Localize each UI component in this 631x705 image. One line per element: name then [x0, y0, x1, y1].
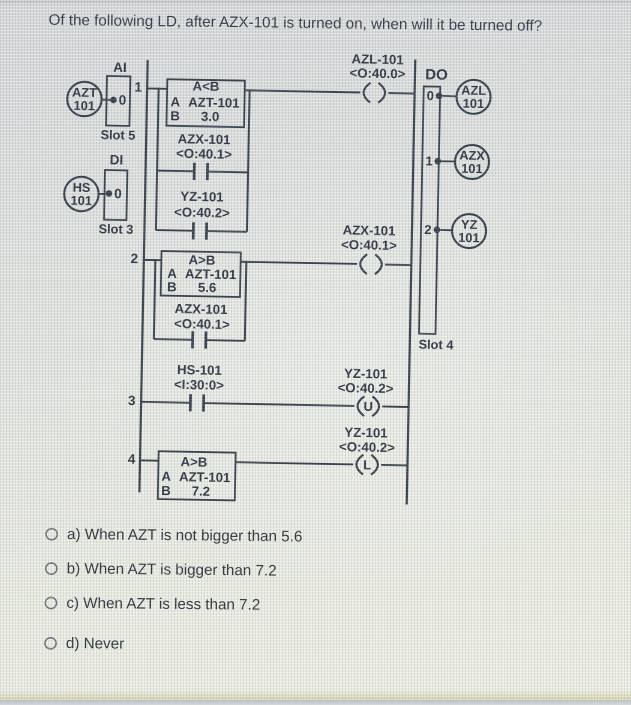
- question title: [48, 12, 542, 35]
- output lamp YZ-101: [452, 214, 487, 249]
- compare block A>B (rung 4): [158, 451, 236, 500]
- svg-text:2: 2: [130, 251, 138, 266]
- svg-text:AI: AI: [113, 60, 127, 75]
- svg-text:A>B: A>B: [180, 454, 207, 470]
- radio option c: [45, 597, 56, 608]
- channel 0 dot (slot 3): [106, 190, 113, 197]
- rung 3 wire to coil: [204, 403, 355, 406]
- svg-text:a) When AZT is not bigger than: a) When AZT is not bigger than 5.6: [67, 526, 302, 545]
- svg-text:HS-101: HS-101: [177, 362, 222, 378]
- svg-text:b) When AZT is bigger than 7.2: b) When AZT is bigger than 7.2: [67, 560, 277, 579]
- contact YZ-101 (rung 1): [156, 229, 193, 232]
- answer options: [45, 526, 303, 655]
- AI module slot 5: [106, 76, 130, 126]
- svg-text:<O:40.1>: <O:40.1>: [174, 316, 230, 332]
- rung 3 wire right: [382, 405, 408, 408]
- right power rail: [407, 60, 416, 505]
- unlatch coil YZ-101 (U): [357, 396, 364, 416]
- svg-text:5.6: 5.6: [198, 280, 217, 295]
- rung 2 wire right: [385, 264, 411, 267]
- svg-text:101: 101: [70, 193, 92, 208]
- rung 2 wire to coil: [241, 262, 357, 264]
- left power rail: [139, 60, 147, 492]
- rung 4 wire to coil: [235, 462, 353, 464]
- rung 1 wire right: [388, 92, 414, 95]
- svg-text:101: 101: [458, 230, 480, 245]
- svg-text:Slot 3: Slot 3: [98, 221, 133, 237]
- svg-text:0: 0: [119, 92, 127, 107]
- instrument AZT-101: [67, 81, 102, 116]
- branch vertical left (rung 1): [156, 88, 159, 230]
- output lamp AZL-101: [456, 80, 491, 115]
- svg-text:<O:40.1>: <O:40.1>: [341, 237, 397, 253]
- ladder diagram (photo slightly rotated): [58, 46, 491, 506]
- channel 0 dot (slot 5): [110, 97, 117, 104]
- compare block A>B (rung 2): [161, 251, 241, 297]
- svg-text:c) When AZT is less than 7.2: c) When AZT is less than 7.2: [66, 595, 260, 614]
- svg-text:<I:30:0>: <I:30:0>: [174, 377, 224, 393]
- latch coil YZ-101 (L): [356, 455, 363, 475]
- svg-text:3.0: 3.0: [201, 109, 220, 124]
- svg-text:101: 101: [73, 98, 95, 113]
- svg-text:4: 4: [128, 452, 136, 467]
- svg-text:3: 3: [128, 393, 136, 408]
- radio option a: [46, 529, 57, 540]
- instrument HS-101: [64, 176, 99, 211]
- svg-text:1: 1: [425, 153, 433, 168]
- svg-text:Of the following LD, after AZX: Of the following LD, after AZX-101 is tu…: [48, 12, 542, 35]
- svg-text:<O:40.0>: <O:40.0>: [349, 65, 405, 81]
- svg-text:B: B: [161, 483, 171, 498]
- rung 1 wire left: [147, 87, 167, 89]
- svg-text:0: 0: [427, 88, 435, 103]
- svg-text:DI: DI: [110, 152, 124, 167]
- svg-text:1: 1: [134, 80, 142, 95]
- wire HS-101 to slot 3: [98, 193, 106, 195]
- contact HS-101 (rung 3): [189, 394, 192, 411]
- svg-text:2: 2: [424, 222, 432, 237]
- branch vertical right (rung 2): [245, 261, 247, 341]
- DI module slot 3: [104, 170, 127, 220]
- svg-text:7.2: 7.2: [192, 484, 211, 499]
- svg-text:L: L: [363, 457, 371, 472]
- rung 1 wire to coil: [245, 90, 361, 92]
- wire AZT-101 to slot 5: [101, 99, 110, 101]
- svg-text:YZ-101: YZ-101: [344, 366, 388, 382]
- svg-text:B: B: [167, 279, 177, 294]
- svg-text:<O:40.2>: <O:40.2>: [339, 439, 395, 455]
- svg-text:101: 101: [463, 96, 485, 111]
- radio option d: [45, 638, 56, 649]
- svg-text:101: 101: [461, 161, 483, 176]
- coil AZL-101 (rung 1 output): [363, 83, 370, 103]
- contact AZX-101 (rung 2): [154, 338, 193, 341]
- svg-text:<O:40.2>: <O:40.2>: [174, 204, 230, 220]
- rung 4 wire right: [381, 464, 407, 467]
- svg-text:Slot 4: Slot 4: [418, 337, 454, 353]
- svg-text:A<B: A<B: [192, 78, 219, 94]
- coil AZX-101 (rung 2 output): [360, 254, 367, 274]
- output lamp AZX-101: [455, 145, 490, 180]
- rung 2 wire left: [144, 259, 161, 261]
- svg-text:<O:40.2>: <O:40.2>: [338, 380, 394, 396]
- radio option b: [46, 563, 57, 574]
- DO module slot 4: [419, 86, 440, 334]
- svg-text:0: 0: [114, 186, 122, 201]
- svg-text:A: A: [170, 94, 180, 109]
- svg-text:DO: DO: [425, 66, 448, 83]
- svg-text:<O:40.1>: <O:40.1>: [176, 146, 232, 162]
- svg-text:A: A: [161, 469, 171, 484]
- rung 3 wire left: [141, 401, 190, 404]
- rung 4 wire left: [140, 459, 158, 461]
- svg-text:AZX-101: AZX-101: [178, 131, 231, 147]
- branch vertical right (rung 1): [247, 89, 250, 231]
- svg-text:YZ-101: YZ-101: [344, 425, 388, 441]
- svg-text:YZ-101: YZ-101: [180, 189, 224, 205]
- svg-text:AZX-101: AZX-101: [343, 222, 396, 238]
- svg-text:Slot 5: Slot 5: [100, 127, 135, 143]
- svg-text:AZT-101: AZT-101: [179, 469, 231, 485]
- branch vertical left (rung 2): [154, 259, 156, 339]
- svg-text:d) Never: d) Never: [66, 635, 124, 653]
- compare block A<B (rung 1): [166, 79, 244, 127]
- svg-text:AZX-101: AZX-101: [174, 301, 227, 317]
- svg-text:B: B: [170, 108, 180, 123]
- svg-text:U: U: [363, 399, 373, 414]
- contact AZX-101 (rung 1): [157, 170, 194, 173]
